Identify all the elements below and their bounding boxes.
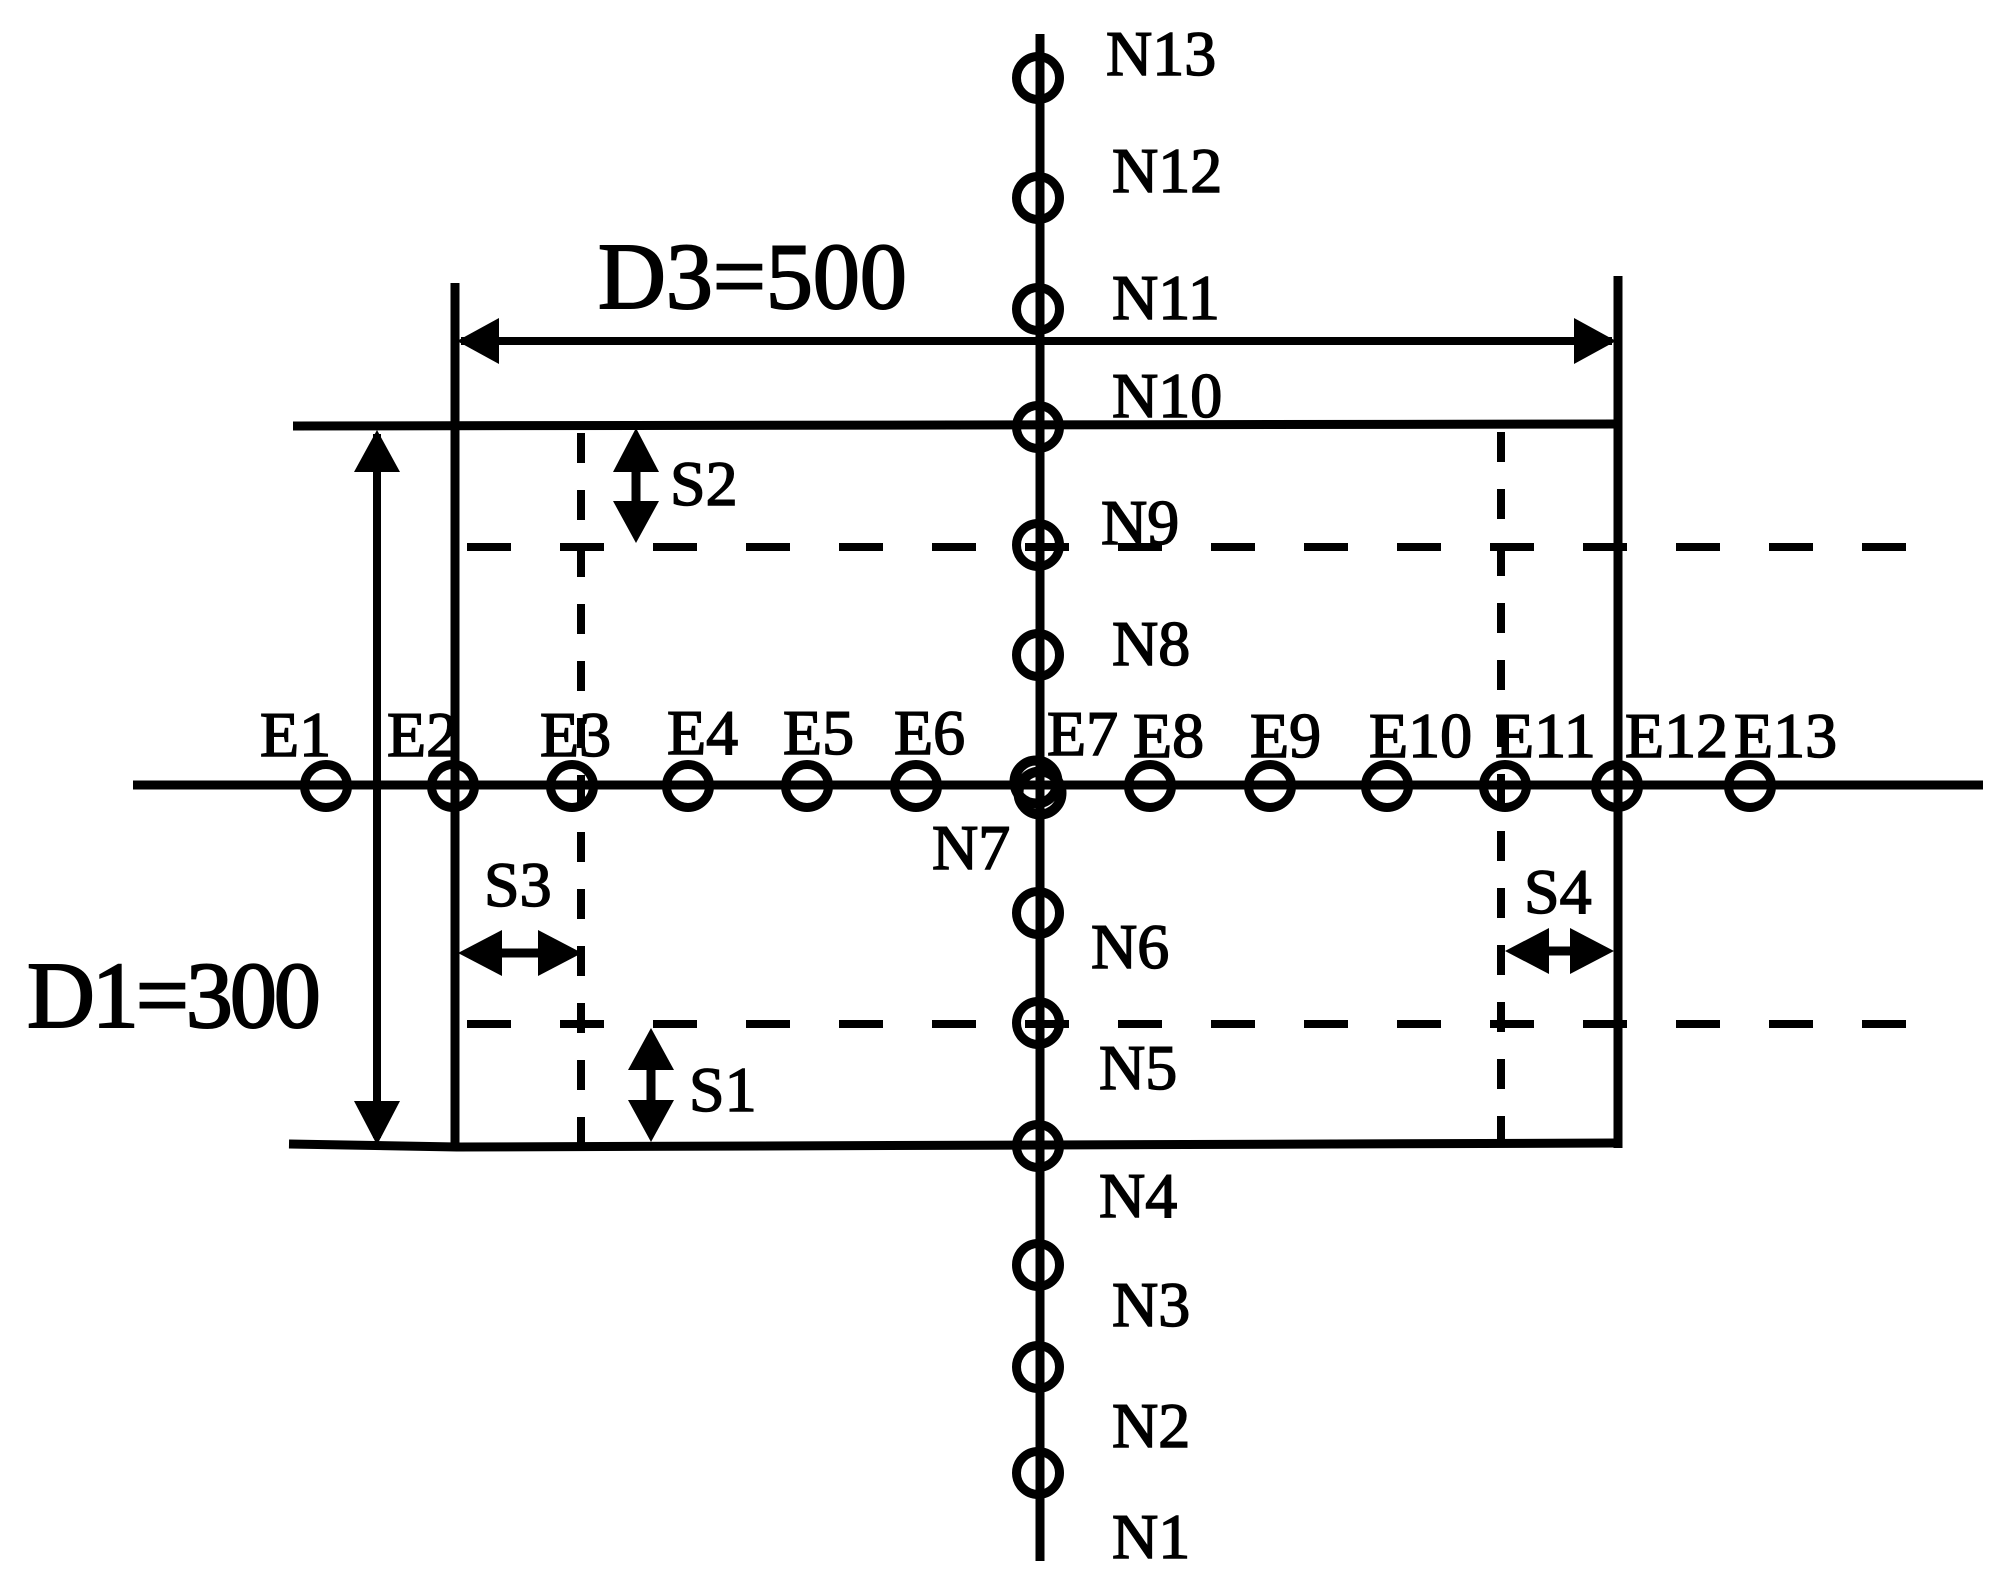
measurement point N11 <box>1017 288 1060 331</box>
svg-text:D1=300: D1=300 <box>27 944 318 1048</box>
S1 arrow shaft <box>647 1052 656 1120</box>
measurement point E7 (centre pair) <box>1015 761 1058 804</box>
measurement point N2 <box>1017 1346 1060 1389</box>
horizontal axis line (E row) <box>133 781 1983 790</box>
svg-text:E1: E1 <box>260 699 331 770</box>
S3 arrow shaft <box>483 949 559 958</box>
svg-text:E2: E2 <box>387 699 458 770</box>
svg-text:D3=500: D3=500 <box>598 225 907 329</box>
svg-text:E6: E6 <box>894 697 965 768</box>
svg-text:N3: N3 <box>1112 1269 1190 1340</box>
svg-text:N12: N12 <box>1112 135 1222 206</box>
measurement point N9 <box>1017 524 1060 567</box>
S1 arrow top head <box>628 1028 674 1070</box>
D1 dimension bottom arrowhead <box>354 1101 400 1145</box>
svg-text:E4: E4 <box>667 697 738 768</box>
svg-text:S4: S4 <box>1524 856 1592 927</box>
measurement point E3 <box>551 765 594 808</box>
svg-text:N13: N13 <box>1106 18 1216 89</box>
measurement point E8 <box>1129 765 1172 808</box>
svg-text:E7: E7 <box>1047 698 1118 769</box>
rectangle top line <box>293 424 1618 426</box>
svg-text:E8: E8 <box>1133 700 1204 771</box>
measurement point N10 <box>1017 406 1060 449</box>
svg-text:E3: E3 <box>540 699 611 770</box>
measurement point E1 <box>305 765 348 808</box>
D3 dimension left arrowhead <box>457 318 499 364</box>
svg-text:E10: E10 <box>1369 700 1472 771</box>
measurement point E5 <box>786 765 829 808</box>
S1 arrow bottom head <box>628 1100 674 1142</box>
S2 arrow top head <box>613 428 659 472</box>
svg-text:S3: S3 <box>484 849 552 920</box>
measurement point N3 <box>1017 1244 1060 1287</box>
svg-text:N9: N9 <box>1101 487 1179 558</box>
svg-text:N8: N8 <box>1112 608 1190 679</box>
measurement point N7 (centre pair) <box>1019 772 1062 815</box>
svg-text:S2: S2 <box>670 448 738 519</box>
D3 dimension right arrowhead <box>1574 318 1616 364</box>
measurement point E9 <box>1249 765 1292 808</box>
dimension line D3 shaft <box>461 337 1612 345</box>
svg-text:E5: E5 <box>783 697 854 768</box>
measurement point N8 <box>1017 634 1060 677</box>
S4 arrow shaft <box>1528 947 1592 956</box>
S4 arrow left head <box>1505 928 1549 974</box>
svg-text:N1: N1 <box>1112 1501 1190 1572</box>
dashed horizontal line lower (S1 reference) <box>467 1020 1906 1028</box>
svg-text:E13: E13 <box>1734 700 1837 771</box>
S2 arrow bottom head <box>613 501 659 543</box>
measurement point N13 <box>1017 57 1060 100</box>
S3 arrow right head <box>538 930 582 976</box>
svg-text:N4: N4 <box>1099 1160 1177 1231</box>
rectangle right edge / extension line <box>1614 276 1623 1148</box>
S3 arrow left head <box>458 930 502 976</box>
dashed vertical line left (S3 reference) <box>577 433 585 1146</box>
svg-text:E12: E12 <box>1625 700 1728 771</box>
measurement point N6 <box>1017 892 1060 935</box>
measurement point E4 <box>667 765 710 808</box>
measurement point E12 <box>1596 765 1639 808</box>
svg-text:E9: E9 <box>1250 700 1321 771</box>
S2 arrow shaft <box>632 455 641 520</box>
dashed horizontal line upper (S2 reference) <box>467 543 1906 551</box>
measurement point E6 <box>895 765 938 808</box>
measurement point E13 <box>1729 765 1772 808</box>
D1 dimension top arrowhead <box>354 430 400 472</box>
measurement point N4 <box>1017 1125 1060 1168</box>
svg-text:N2: N2 <box>1112 1390 1190 1461</box>
svg-text:N11: N11 <box>1112 262 1220 333</box>
svg-text:N7: N7 <box>932 812 1010 883</box>
vertical axis line (N column) <box>1036 34 1045 1561</box>
svg-text:N6: N6 <box>1091 911 1169 982</box>
rectangle left edge / extension line <box>451 283 460 1148</box>
dashed vertical line right (S4 reference) <box>1497 432 1505 1146</box>
measurement point N5 <box>1017 1002 1060 1045</box>
dimension line D1 shaft <box>373 434 381 1138</box>
svg-text:S1: S1 <box>689 1054 757 1125</box>
measurement point E10 <box>1366 765 1409 808</box>
measurement point E2 <box>432 765 475 808</box>
svg-text:N5: N5 <box>1099 1032 1177 1103</box>
S4 arrow right head <box>1570 928 1614 974</box>
measurement point N1 <box>1017 1452 1060 1495</box>
rectangle bottom line <box>289 1143 1618 1147</box>
measurement point E11 <box>1484 765 1527 808</box>
svg-text:E11: E11 <box>1495 700 1596 771</box>
measurement point N12 <box>1017 177 1060 220</box>
svg-text:N10: N10 <box>1112 360 1222 431</box>
